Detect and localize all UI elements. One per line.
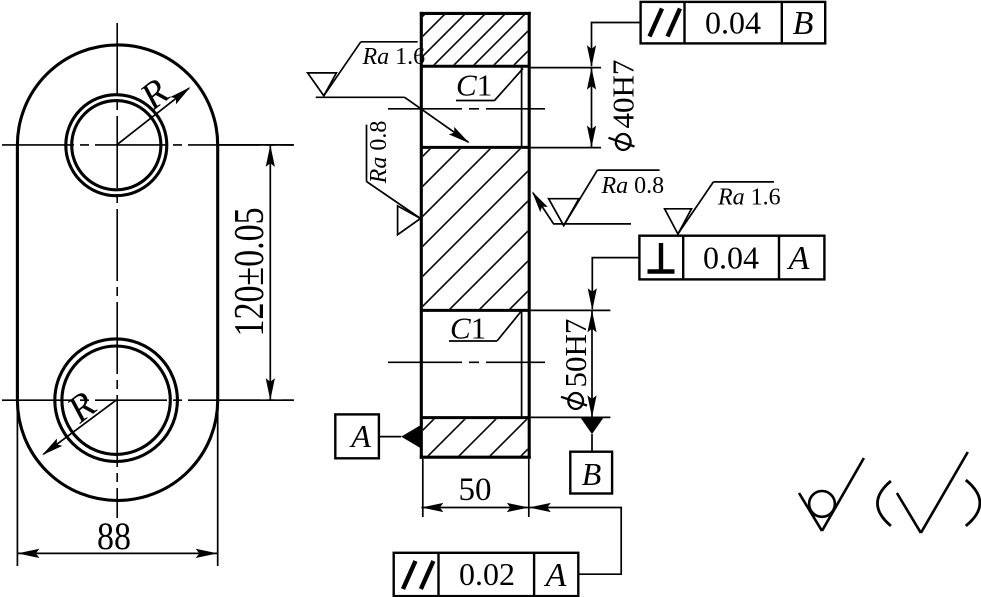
basic check symbol	[897, 452, 968, 533]
bottom hole horizontal centerline	[2, 399, 294, 401]
chamfer line bore 50	[521, 310, 523, 417]
top hole outer circle	[66, 95, 167, 196]
bore 50 centerline	[388, 361, 545, 363]
chamfer label C1 bottom	[449, 311, 521, 346]
svg-text:88: 88	[97, 514, 131, 558]
dimension 88	[17, 403, 217, 566]
parallelism frame // 0.04 B	[641, 2, 826, 44]
svg-text:Ra 0.8: Ra 0.8	[601, 173, 665, 199]
dimension phi40H7	[531, 60, 641, 150]
top hole horizontal centerline	[2, 144, 294, 146]
radius leader R bottom	[39, 384, 116, 459]
chamfer label C1 top	[456, 68, 523, 103]
bore 40 centerline	[388, 108, 545, 110]
bore 40 window bottom edge	[421, 146, 529, 149]
obround plate outline	[17, 45, 217, 501]
svg-text:0.04: 0.04	[703, 240, 759, 276]
hatching top band	[423, 15, 528, 65]
datum B	[570, 417, 612, 493]
section view outline	[420, 12, 531, 459]
bore 50 window bottom edge	[421, 416, 529, 419]
dimension 120±0.05	[219, 145, 294, 400]
hatching bottom band	[423, 419, 528, 456]
svg-text:Ra 1.6: Ra 1.6	[362, 44, 426, 70]
svg-text:B: B	[582, 456, 602, 492]
other surfaces symbol circle-check	[799, 458, 864, 531]
perpendicularity frame ⊥ 0.04 A	[639, 236, 824, 280]
svg-text:A: A	[787, 240, 810, 277]
surface roughness Ra 0.8 left rotated	[366, 121, 421, 235]
svg-text:50H7: 50H7	[558, 319, 593, 388]
bore 50 window top edge	[421, 309, 529, 312]
svg-text:C1: C1	[456, 68, 492, 103]
svg-text:Ra 1.6: Ra 1.6	[717, 184, 781, 210]
hatching middle band	[423, 149, 528, 309]
svg-text:Ra 0.8: Ra 0.8	[366, 121, 392, 185]
top hole inner circle	[72, 101, 161, 190]
svg-text:A: A	[349, 418, 371, 454]
svg-text:B: B	[793, 5, 814, 42]
bottom hole outer circle	[55, 339, 178, 462]
svg-text:0.02: 0.02	[459, 556, 515, 592]
connector from 50 extension to frame	[529, 503, 621, 574]
parenthesis right	[966, 480, 980, 526]
svg-text:0.04: 0.04	[705, 5, 761, 41]
svg-text:40H7: 40H7	[606, 60, 641, 129]
dimension 50	[421, 459, 528, 517]
svg-text:A: A	[544, 557, 567, 594]
svg-text:50: 50	[459, 472, 492, 508]
radius leader R top	[116, 71, 193, 145]
leader of parallelism frame top	[587, 23, 641, 68]
leader of perpendicularity frame	[588, 258, 640, 311]
dimension phi50H7	[531, 310, 611, 417]
bottom hole inner circle	[62, 346, 170, 454]
vertical centerline	[116, 23, 118, 518]
parenthesis left	[877, 481, 890, 526]
surface roughness Ra 0.8 right	[528, 170, 664, 226]
surface roughness Ra 1.6 left	[308, 42, 473, 147]
parallelism frame // 0.02 A bottom	[394, 553, 579, 596]
svg-text:120±0.05: 120±0.05	[227, 207, 273, 336]
datum A	[335, 414, 421, 458]
chamfer line bore 40	[521, 66, 523, 147]
surface roughness Ra 1.6 right	[665, 182, 781, 234]
bore 40 window top edge	[421, 65, 529, 68]
